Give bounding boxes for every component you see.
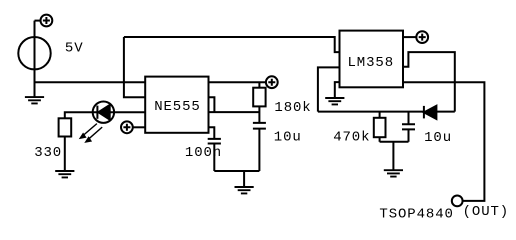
wire stub to +5V symbol — [35, 20, 41, 22]
wire NE555 pin5 to power — [209, 81, 266, 83]
power + symbol P4 — [416, 31, 428, 43]
terminal TSOP4840 OUT — [452, 196, 463, 207]
wire LM358 vcc pin to power — [403, 36, 416, 38]
wire C1 bottom — [258, 129, 260, 171]
wire R3 bottom — [379, 137, 381, 142]
wire 470k top lead — [379, 112, 381, 118]
svg-text:180k: 180k — [274, 100, 311, 116]
wire NE555 pin7 to node — [209, 111, 260, 113]
wire V1 vertical through source to ground — [34, 21, 36, 98]
wire LM358 gnd pin — [335, 82, 340, 98]
wire bottom rail 2 — [380, 141, 409, 143]
wire LM358 out1 loop to diode — [403, 52, 455, 112]
ground GND3 — [235, 187, 254, 193]
wire vertical from top wire to NE555 pin2 — [124, 37, 145, 97]
wire C2 bottom — [213, 144, 215, 172]
wire LM358 pin3 loop to bottom rail — [318, 67, 340, 111]
capacitor C1 10u — [253, 123, 266, 129]
svg-text:NE555: NE555 — [154, 99, 201, 115]
capacitor C3 10u — [402, 124, 415, 129]
diode D2 — [424, 106, 437, 119]
power + symbol P2 at NE555 — [121, 121, 133, 133]
wire 5V rail to NE555 pin — [35, 81, 146, 83]
wire LED to NE555 pin3 — [110, 111, 146, 113]
wire diode to loop — [436, 111, 455, 113]
svg-text:330: 330 — [34, 145, 62, 161]
power +5V symbol P1 — [41, 15, 53, 27]
wire C3 bottom — [408, 129, 410, 141]
svg-text:10u: 10u — [274, 130, 302, 146]
wire 180k bottom to C1 — [258, 106, 260, 123]
wire R1 bottom to ground — [64, 137, 66, 172]
resistor R3 470k — [374, 118, 386, 137]
resistor R1 330 — [59, 118, 72, 136]
wire 180k top lead — [258, 82, 260, 88]
ground GND4 — [325, 98, 344, 104]
capacitor C2 100n — [208, 139, 221, 144]
wire LM358 out2 to TSOP terminal — [403, 82, 484, 201]
ground GND2 — [55, 171, 74, 177]
svg-text:10u: 10u — [424, 130, 452, 146]
wire 330 resistor top to LED — [65, 112, 97, 118]
LED arrows — [80, 124, 103, 143]
IC U2 LM358 — [340, 31, 404, 88]
power + symbol P3 — [266, 76, 278, 88]
svg-text:(OUT): (OUT) — [463, 204, 510, 220]
ground GND5 — [384, 170, 403, 176]
ground GND1 — [25, 97, 44, 103]
voltage source V1 5V — [18, 37, 50, 69]
LED D1 — [93, 102, 114, 123]
svg-text:LM358: LM358 — [348, 55, 395, 71]
wire C3 top lead — [408, 112, 410, 125]
svg-text:TSOP4840: TSOP4840 — [379, 206, 453, 222]
wire NE555 pin8 stub to C2 — [209, 127, 215, 139]
wire ground stem — [243, 171, 245, 187]
wire ground stem 2 — [392, 142, 394, 170]
wire bottom rail LM358 feedback — [318, 111, 424, 113]
wire bottom rail — [214, 170, 259, 172]
svg-text:5V: 5V — [65, 40, 84, 56]
resistor R2 180k — [253, 88, 265, 107]
wire P2 to NE555 pin4 — [133, 126, 145, 128]
wire NE555 pin6 stub — [209, 97, 215, 112]
wire top horizontal NE555 to LM358 — [124, 37, 340, 52]
svg-text:100n: 100n — [185, 145, 222, 161]
IC U1 NE555 — [145, 77, 208, 133]
svg-text:470k: 470k — [333, 130, 370, 146]
